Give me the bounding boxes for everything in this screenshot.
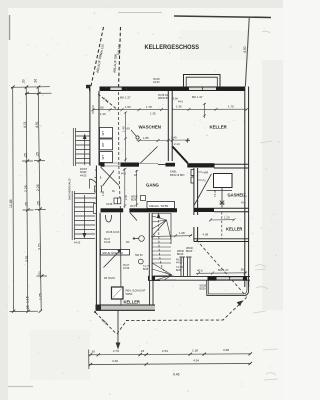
left dimension values (rotated)	[9, 79, 42, 310]
svg-text:BD30: BD30	[131, 199, 138, 202]
dim chain line C	[38, 87, 41, 311]
stair left wall	[149, 213, 152, 280]
svg-text:BKW NI BIO: BKW NI BIO	[170, 173, 184, 177]
property boundary line right vertical	[245, 17, 249, 87]
dim chain line B	[26, 87, 28, 311]
svg-text:1.85: 1.85	[98, 105, 104, 109]
svg-text:BD30: BD30	[200, 288, 207, 291]
gasheiz south wall double line part	[214, 208, 249, 212]
svg-text:44.6: 44.6	[178, 101, 183, 104]
wd30 text at light well	[200, 285, 207, 291]
svg-text:44.9: 44.9	[121, 173, 126, 176]
svg-text:1.75: 1.75	[39, 293, 43, 300]
sewer pipe vertical through keller left	[120, 213, 123, 306]
svg-text:44.63: 44.63	[153, 80, 160, 84]
east wall keller left	[150, 280, 160, 305]
svg-text:2.14: 2.14	[174, 142, 180, 146]
window opening in top wall (under light well)	[189, 87, 216, 91]
scatter small notes keller left	[104, 238, 151, 280]
svg-text:WT: WT	[101, 142, 105, 147]
wall segment left	[99, 163, 105, 167]
door opening 2 sill	[139, 162, 158, 164]
light well terrace below wall	[207, 281, 249, 296]
dashed pipe through gang	[119, 166, 121, 212]
stair 2 down-arrow	[83, 233, 87, 239]
dim chain line A (outer total)	[12, 87, 15, 311]
gasheiz north wall dark segment	[187, 163, 214, 167]
bottom dim values row1	[91, 348, 230, 354]
svg-text:.25: .25	[24, 202, 28, 207]
vertical dim marks in keller top	[203, 103, 206, 118]
svg-text:KELLER: KELLER	[226, 227, 242, 232]
svg-text:1.98: 1.98	[179, 231, 185, 235]
svg-text:REV.-SCHACHT: REV.-SCHACHT	[126, 289, 146, 293]
window opening in top wall (waschen)	[110, 87, 122, 92]
stair walk line with arrow	[159, 216, 177, 277]
main pipe to arrow	[117, 311, 119, 346]
svg-text:3.51: 3.51	[25, 255, 29, 262]
grue nne box label	[101, 250, 130, 256]
svg-text:BD40: BD40	[177, 253, 184, 256]
svg-text:2.76: 2.76	[113, 349, 119, 353]
svg-text:1.85: 1.85	[143, 136, 149, 140]
waschen dim chain at y140	[137, 139, 190, 142]
gang vertical dim ticks	[124, 168, 139, 208]
plus tick in keller top	[186, 138, 191, 143]
dim chain top line	[11, 86, 50, 89]
dim chain bottom line	[10, 310, 39, 312]
corner tick top-left	[86, 85, 91, 89]
light well bump	[184, 75, 221, 88]
WT tub 2	[100, 139, 113, 150]
svg-text:2.51: 2.51	[162, 349, 168, 353]
dim chain second top line	[25, 92, 52, 94]
door swing waschen	[140, 147, 158, 164]
interior dimension chain under top wall	[92, 105, 249, 114]
svg-text:1.35: 1.35	[150, 112, 156, 116]
elevation text left of bump	[153, 77, 160, 84]
svg-text:4.90: 4.90	[243, 46, 247, 53]
svg-text:4.91: 4.91	[35, 121, 39, 128]
faint bottom-left artifact line	[8, 386, 33, 388]
door opening 1 sill lines	[105, 163, 121, 166]
pipe pair 2	[186, 257, 192, 276]
svg-text:1.50: 1.50	[125, 105, 131, 109]
elevation text top of keller left	[106, 231, 120, 234]
property boundary line top (dark part)	[174, 16, 271, 18]
door opening in west wall	[193, 215, 199, 227]
valve symbol above south wall	[220, 201, 224, 206]
door niche box on wall	[94, 204, 100, 214]
svg-text:45.08 44.63: 45.08 44.63	[106, 231, 120, 234]
gang small annotations	[95, 169, 137, 200]
svg-text:1.20: 1.20	[224, 216, 230, 220]
outside stair flight 2 (lower)	[72, 191, 95, 240]
svg-text:3.70: 3.70	[37, 243, 41, 250]
svg-text:44.05: 44.05	[80, 174, 87, 178]
svg-text:45.0: 45.0	[130, 205, 135, 208]
gang symbol box B	[95, 186, 102, 192]
dashed line A to right	[117, 298, 247, 335]
svg-text:2.26: 2.26	[24, 185, 28, 192]
svg-text:2.26: 2.26	[36, 184, 40, 191]
K150 dashed diagonal from corner	[96, 313, 117, 335]
keller right south wall	[194, 239, 249, 242]
bottom dim row 1	[89, 354, 252, 355]
keller right label small	[176, 259, 183, 265]
svg-text:.90: .90	[240, 268, 244, 272]
gasheiz west wall	[194, 168, 199, 242]
heater connector line	[221, 188, 223, 208]
svg-text:1.30: 1.30	[176, 105, 182, 109]
svg-text:WASCHEN: WASCHEN	[139, 125, 161, 130]
dim chain lower right	[196, 271, 247, 275]
svg-text:NACHBARHAUS: NACHBARHAUS	[68, 178, 72, 200]
heater box	[214, 174, 233, 188]
diagonal wall to gasheiz	[173, 147, 188, 164]
south wall keller left	[96, 305, 156, 311]
svg-text:BH 1.37: BH 1.37	[218, 268, 229, 272]
heater shelf line	[207, 190, 233, 192]
dim values above interior chain	[98, 105, 234, 116]
left exterior wall upper	[90, 87, 100, 166]
svg-text:F2: F2	[203, 179, 207, 183]
wall segment right sill	[158, 164, 166, 166]
flue diagonal	[194, 174, 212, 206]
svg-text:1.15: 1.15	[26, 296, 30, 303]
dashed sewer line 2 (right) with label	[113, 27, 122, 88]
svg-text:40.6: 40.6	[197, 268, 203, 272]
big down arrow	[116, 343, 121, 350]
svg-text:WT: WT	[101, 155, 105, 160]
left end vertical	[88, 350, 90, 370]
bottom dim row 2	[89, 364, 252, 365]
svg-text:T2 30: T2 30	[213, 189, 217, 197]
window section in bottom-right wall	[217, 277, 243, 281]
dashed canal vertical through waschen	[118, 92, 120, 166]
tick marks	[11, 86, 43, 313]
wall segment middle	[121, 163, 140, 167]
pipe labels	[177, 247, 194, 256]
svg-text:1.40: 1.40	[171, 136, 177, 140]
gasheiz north wall double line part	[214, 164, 249, 168]
rev schacht label	[126, 289, 146, 297]
WT tub 3	[100, 152, 113, 163]
pipe drop symbol	[106, 215, 112, 222]
svg-text:12.88: 12.88	[9, 199, 13, 208]
right exterior wall	[245, 87, 250, 288]
stair 1 up-arrow	[83, 134, 87, 140]
svg-text:.25: .25	[26, 305, 30, 310]
arrowhead on dashed A	[237, 301, 243, 307]
svg-text:44.60: 44.60	[104, 241, 111, 244]
svg-text:.30: .30	[22, 79, 26, 84]
rev schacht box	[112, 287, 124, 299]
circle symbol with arrow (pump)	[133, 236, 144, 242]
svg-text:KELLERGESCHOSS: KELLERGESCHOSS	[145, 44, 200, 51]
small note by stair	[176, 266, 184, 272]
svg-text:4.54: 4.54	[193, 358, 199, 362]
svg-text:4.01: 4.01	[23, 121, 27, 128]
circle symbol 2	[138, 259, 143, 264]
svg-text:B/28: B/28	[176, 269, 182, 272]
bottom-right exterior wall double lines	[148, 276, 250, 280]
west wall lower	[96, 166, 101, 311]
svg-text:HAR: HAR	[203, 171, 209, 175]
dashed duct vertical	[221, 212, 223, 239]
svg-text:60: 60	[127, 127, 131, 131]
small cross dashes at segment joints	[22, 160, 33, 162]
svg-text:.25: .25	[24, 153, 28, 158]
svg-text:RF 30x30: RF 30x30	[104, 277, 115, 280]
ticks row 2	[89, 362, 252, 366]
dashed canal diagonal at top-left corner	[98, 94, 118, 110]
svg-text:BH 1.37: BH 1.37	[120, 96, 131, 100]
top exterior wall	[89, 87, 248, 92]
outside stair flight 1 (upper)	[73, 128, 95, 166]
WT tub 1	[100, 128, 113, 139]
door swing arc at exterior landing	[90, 179, 98, 189]
text kabl	[170, 170, 184, 177]
svg-text:KELLER: KELLER	[210, 125, 228, 130]
svg-text:1.06: 1.06	[102, 191, 105, 196]
svg-text:.36: .36	[34, 79, 38, 84]
svg-text:44.63: 44.63	[176, 262, 183, 265]
pipe pair 1	[180, 257, 186, 276]
stair bottom winders	[152, 263, 176, 280]
small boxes WD30	[131, 196, 146, 202]
small duct boxes at gang south wall	[114, 198, 121, 204]
svg-text:4.08: 4.08	[203, 233, 209, 237]
ticks row 1	[89, 352, 252, 356]
svg-text:KD: KD	[126, 241, 130, 244]
svg-text:Zählerk. 50/50: Zählerk. 50/50	[149, 204, 169, 208]
BH labels on top wall	[120, 95, 203, 100]
svg-text:1.40: 1.40	[122, 126, 126, 132]
pipe over box segment	[120, 250, 122, 256]
stair right edge	[170, 213, 172, 244]
bottom-right wall dark segment left	[148, 276, 155, 281]
dashed sewer line 1 (left) with label	[91, 27, 105, 86]
svg-text:.25: .25	[37, 201, 41, 206]
svg-text:44.05: 44.05	[74, 242, 81, 245]
stair treads straight	[152, 239, 171, 263]
gang south wall (dark hatched bar, door gap)	[99, 208, 123, 212]
svg-text:.50: .50	[38, 271, 42, 276]
svg-text:B/28: B/28	[143, 268, 149, 271]
svg-text:.30: .30	[91, 350, 96, 354]
vertical dim line in waschen	[124, 112, 127, 163]
corner dot	[94, 311, 96, 313]
svg-text:50/50: 50/50	[126, 292, 133, 296]
divider wall foot cap	[166, 163, 176, 167]
rising pipe diagonal with arrow	[104, 251, 121, 268]
svg-text:BD40: BD40	[186, 250, 193, 253]
svg-text:44.98: 44.98	[106, 203, 113, 206]
svg-text:WT: WT	[101, 131, 105, 136]
divider wall waschen/keller	[168, 91, 173, 161]
bottom dim values row2	[112, 358, 199, 363]
stair top winders	[152, 214, 171, 240]
svg-text:1.38: 1.38	[192, 348, 198, 352]
dashed line B diagonal	[197, 240, 247, 297]
extra gang smudges	[95, 197, 135, 208]
svg-text:9.46: 9.46	[173, 373, 180, 377]
svg-text:2.39: 2.39	[125, 195, 128, 200]
svg-text:GANG: GANG	[146, 183, 160, 188]
svg-text:.25: .25	[36, 152, 40, 157]
svg-text:40 x: 40 x	[241, 202, 246, 205]
gang door X swings	[101, 167, 120, 186]
bottom-right wall dark segment middle	[208, 276, 217, 281]
svg-text:3.68: 3.68	[223, 348, 229, 352]
svg-text:44.56: 44.56	[123, 267, 130, 270]
svg-text:GASHEIZ.: GASHEIZ.	[228, 193, 247, 198]
elevation cluster at divider wall top	[158, 94, 183, 104]
property boundary line top (faint left part)	[118, 12, 162, 14]
svg-text:NW 50: NW 50	[135, 254, 143, 257]
floor drain with leader 60	[127, 127, 140, 140]
door swing at gang-keller door	[130, 213, 137, 221]
svg-text:3.30: 3.30	[112, 359, 118, 363]
meter niche box	[147, 202, 175, 209]
svg-text:NW 150: NW 150	[117, 44, 122, 55]
bottom-right wall dark segment right	[243, 276, 247, 281]
svg-text:.24: .24	[140, 349, 145, 353]
svg-text:KELLER: KELLER	[124, 300, 140, 305]
gang symbol circle	[95, 176, 101, 180]
svg-text:1.75: 1.75	[228, 105, 234, 109]
fold mark top left	[9, 15, 11, 40]
landing text block	[80, 167, 88, 178]
gasheiz south wall dark segment	[194, 208, 214, 212]
svg-text:1.78: 1.78	[146, 105, 152, 109]
svg-text:1.40: 1.40	[100, 112, 106, 116]
